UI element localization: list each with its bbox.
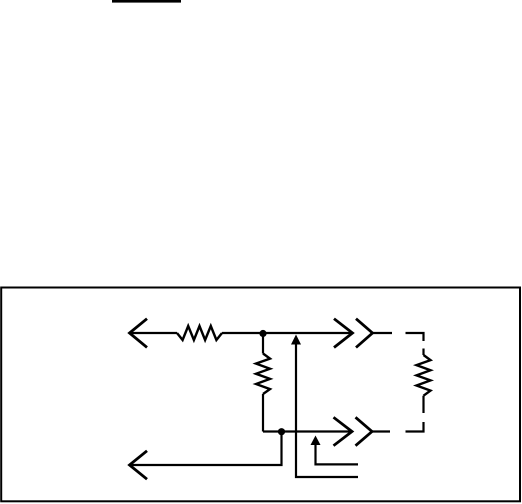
figure frame — [1, 288, 520, 502]
wire: top-left horizontal — [130, 332, 178, 334]
arrowhead: top-right open arrow pointing right — [334, 319, 353, 348]
arrowhead: bottom-right open arrow pointing right — [334, 417, 353, 445]
dashed wire: top-right corner dash — [406, 333, 424, 341]
resistor R2 top lead (from node A) — [262, 334, 264, 354]
wire: R3 bottom lead — [422, 396, 424, 413]
resistor R1 (series, horizontal) — [177, 326, 222, 340]
arrow: short up arrow head (filled) — [311, 436, 321, 446]
arrow: long up arrow shaft and bottom return — [296, 341, 358, 477]
node A (junction dot, top) — [259, 330, 266, 337]
arrow: short up arrow shaft and bottom return — [316, 443, 359, 464]
dashed wire: bottom-right corner dash — [406, 422, 424, 432]
dashed wire: R3 top lead dash — [422, 349, 424, 356]
resistor R2 bottom lead — [262, 394, 264, 432]
node B (junction dot, bottom) — [278, 428, 285, 435]
wire: chevron tail (top) — [373, 332, 393, 334]
wire: chevron tail (bottom) — [372, 430, 390, 432]
resistor R2 (shunt, vertical, middle) — [256, 354, 270, 395]
text underline (top of page) — [112, 0, 181, 3]
arrowhead: top-left open arrow pointing left — [130, 319, 148, 348]
wire: R1 to right arrowhead (top) — [222, 332, 353, 334]
wire: node B down to bottom-left arrow — [130, 433, 282, 465]
resistor R3 (load, vertical, right) — [417, 355, 431, 396]
arrow: long up arrow head (filled) — [291, 335, 301, 345]
arrowhead: bottom-left open arrow pointing left — [130, 451, 148, 479]
connector chevron (bottom right) — [356, 417, 373, 445]
connector chevron (top right) — [356, 319, 373, 348]
wire: lower horizontal — [263, 430, 352, 432]
